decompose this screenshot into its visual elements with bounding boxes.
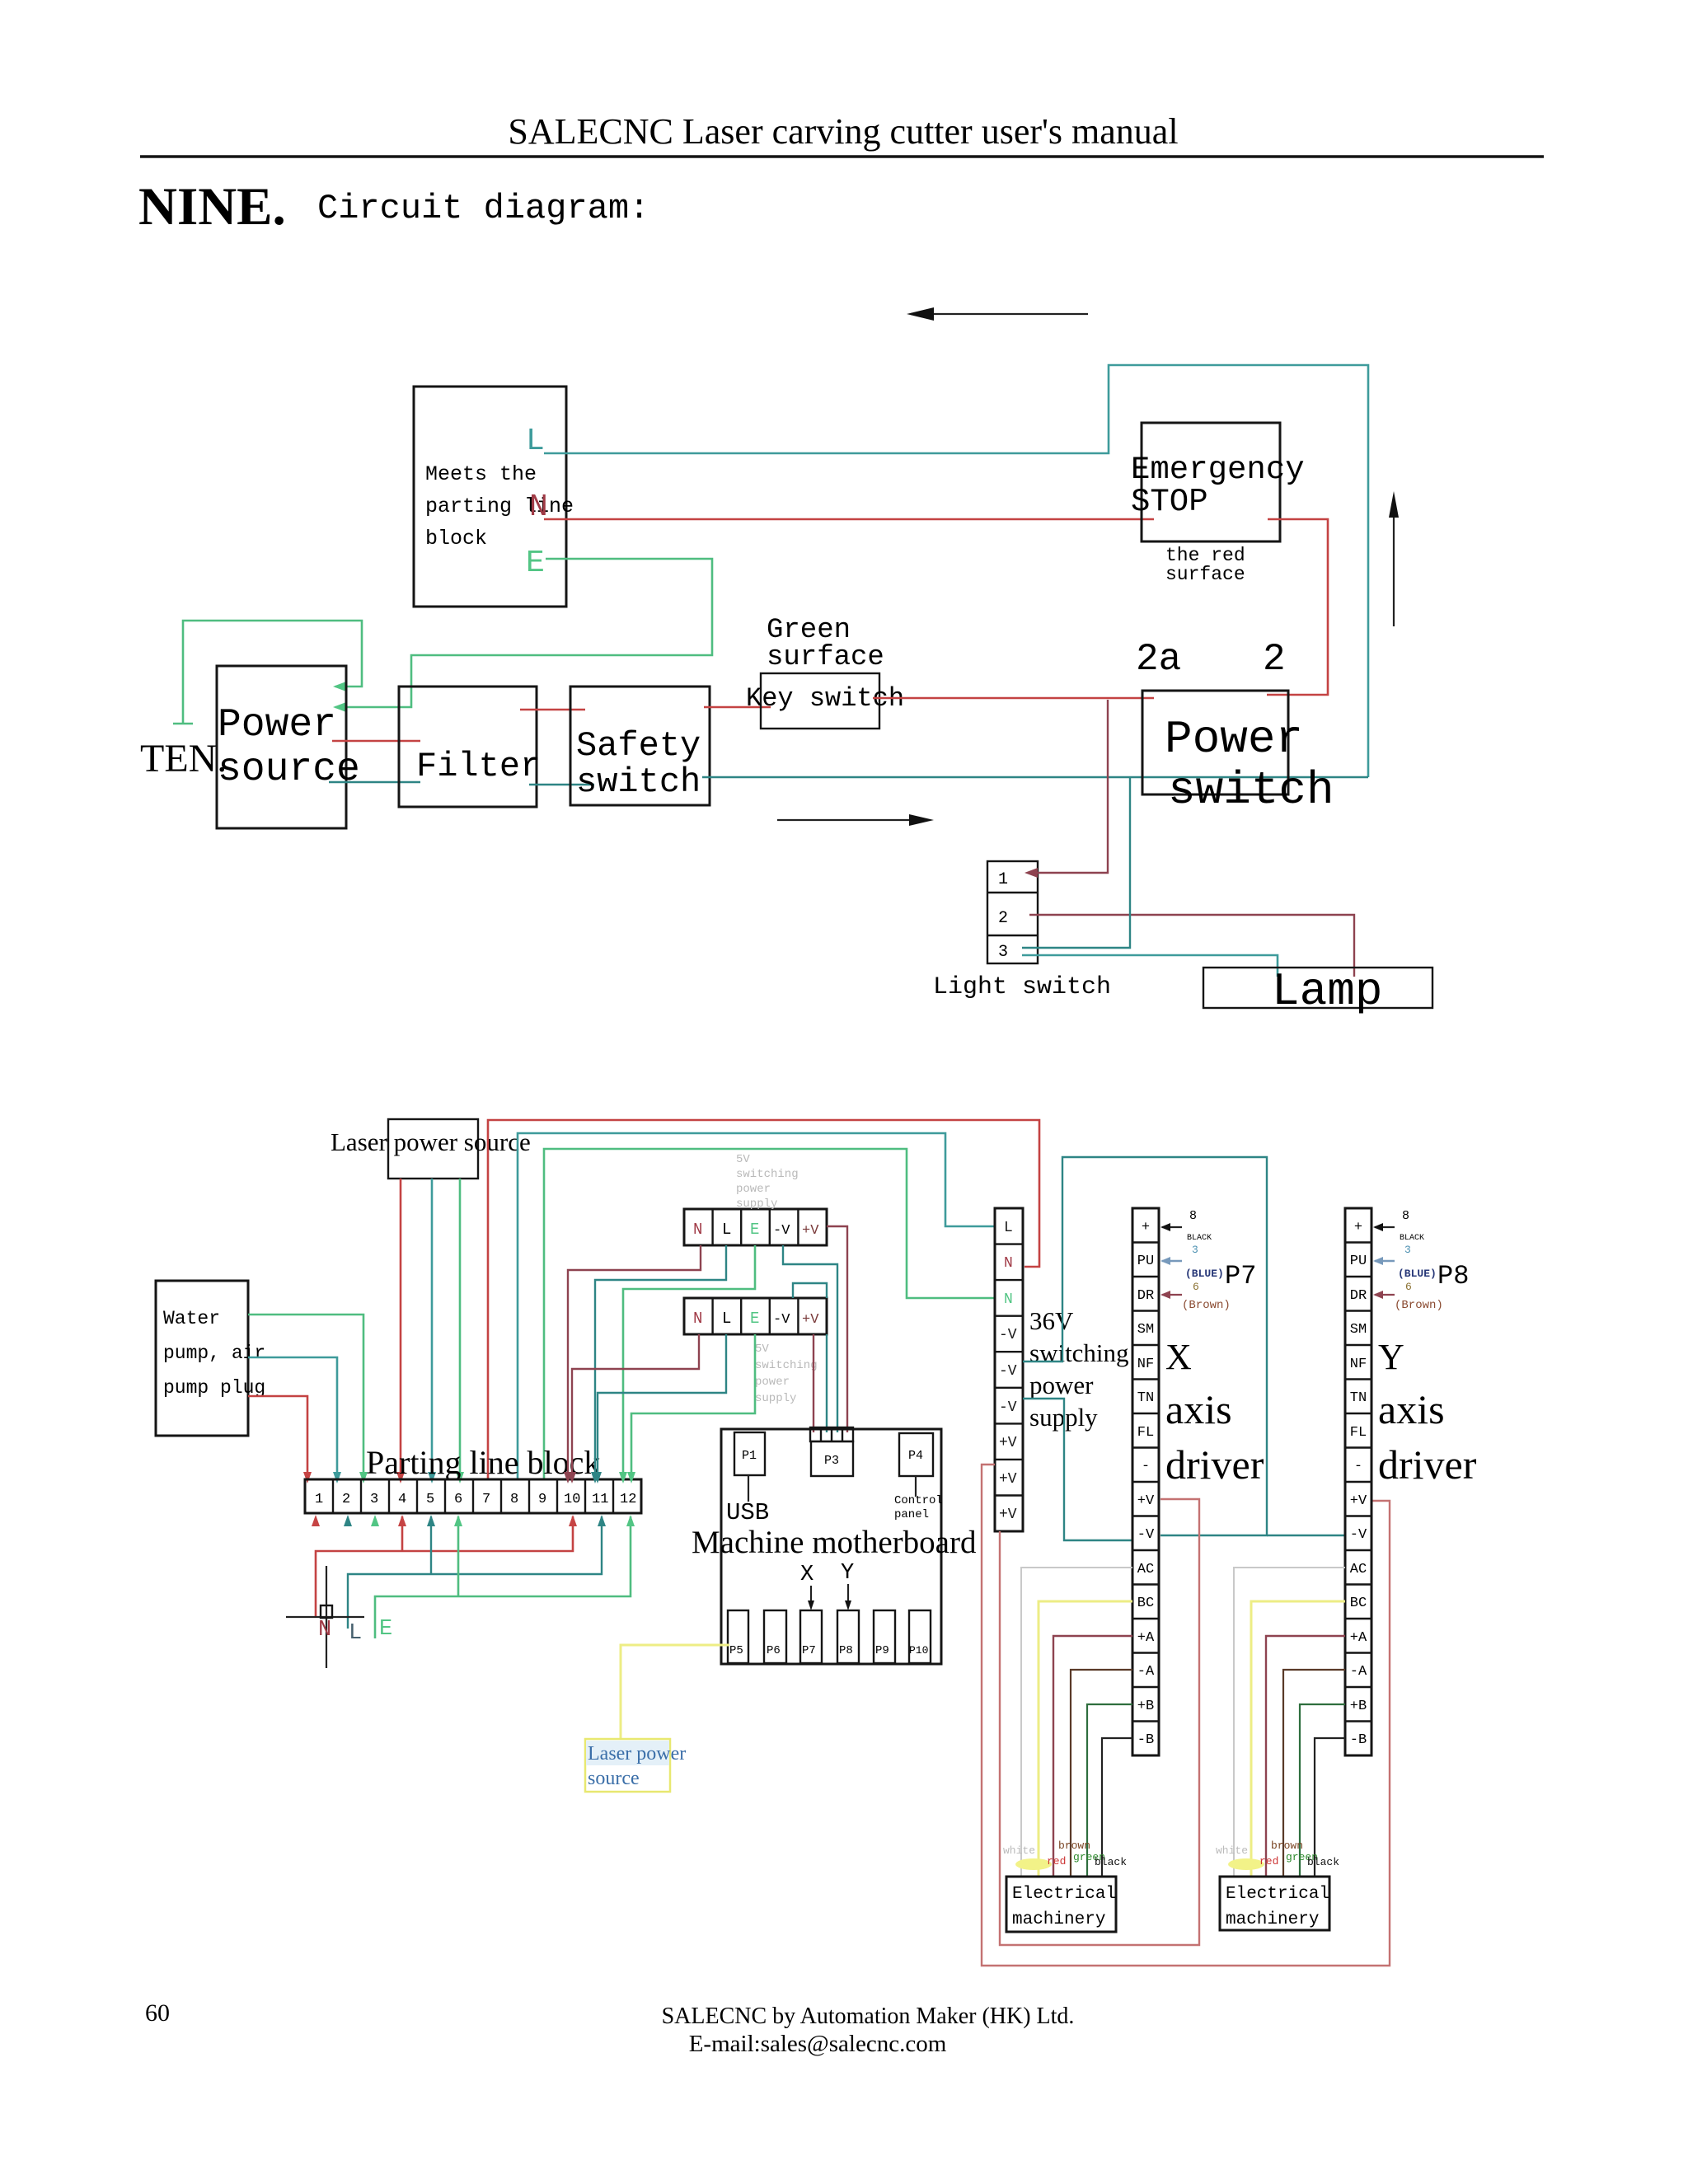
label: X motor wire colours [1003, 1840, 1127, 1870]
wire: maroon 5V strip2 +V to motherboard P3 [813, 1334, 814, 1432]
svg-text:P1: P1 [742, 1449, 757, 1463]
svg-text:switching: switching [755, 1359, 818, 1372]
wire: green 5V strip1 E to PLB terminal 12 [619, 1245, 755, 1483]
connector P3 pins [810, 1427, 853, 1441]
wire: teal 5V strip1 L to PLB terminal 11 [591, 1245, 726, 1483]
wire: red filter to safety switch [520, 709, 585, 711]
arrow (vertical, pointing up) [1389, 491, 1399, 626]
wire: Y driver +B to electrical machinery [1300, 1704, 1345, 1877]
svg-text:supply: supply [755, 1392, 796, 1405]
svg-text:block: block [425, 527, 487, 551]
connector P1 [734, 1432, 765, 1475]
label: Y axis driver [1378, 1337, 1477, 1488]
wire: green water pump to PLB terminal 3 [248, 1315, 368, 1483]
label: Laser power source (yellow box, blue text) [585, 1739, 686, 1792]
wire: Y driver +A to electrical machinery [1266, 1636, 1345, 1877]
svg-text:12: 12 [620, 1492, 636, 1507]
svg-text:FL: FL [1350, 1425, 1367, 1441]
svg-text:L: L [349, 1621, 362, 1646]
wire: teal laser power source to PLB terminal 5 [428, 1179, 436, 1483]
block: Light switch (3 terminals) [987, 861, 1038, 963]
wire: teal light switch terminal 3 to lamp [1022, 955, 1278, 977]
wire: teal power switch to light switch terminal 3 [1022, 778, 1130, 948]
block: Emergency STOP [1131, 423, 1305, 541]
svg-text:AC: AC [1137, 1562, 1154, 1577]
svg-text:6: 6 [1193, 1281, 1199, 1293]
label: wire colour notes at P8 driver top [1373, 1209, 1469, 1312]
svg-text:(Brown): (Brown) [1395, 1299, 1443, 1312]
svg-text:SALECNC Laser carving cutter u: SALECNC Laser carving cutter user's manu… [508, 111, 1178, 152]
block: Power source [217, 666, 360, 828]
svg-text:+V: +V [1137, 1493, 1155, 1509]
svg-text:parting line: parting line [425, 494, 574, 518]
svg-text:5: 5 [426, 1492, 434, 1507]
block: Electrical machinery (Y) [1220, 1877, 1329, 1930]
arrow (middle, pointing right) [777, 814, 934, 826]
svg-text:-: - [1354, 1459, 1362, 1474]
svg-text:BLACK: BLACK [1187, 1234, 1212, 1243]
wire: X driver +B to electrical machinery [1087, 1704, 1132, 1877]
wire: red 5V strip1 +V to motherboard P3 [827, 1226, 847, 1432]
svg-text:-B: -B [1350, 1732, 1367, 1748]
svg-text:7: 7 [482, 1492, 490, 1507]
block: Laser power source [331, 1119, 531, 1179]
wire: red PLB terminal 7 to 36V supply N [488, 1120, 1039, 1479]
svg-text:-: - [1142, 1459, 1150, 1474]
svg-text:USB: USB [726, 1499, 769, 1526]
svg-text:FL: FL [1137, 1425, 1154, 1441]
svg-text:E: E [750, 1310, 759, 1328]
wire: P4 stub to control panel [915, 1476, 917, 1497]
connector P6 [764, 1610, 786, 1663]
svg-text:supply: supply [736, 1197, 777, 1211]
wire: teal PLB terminal 8 to 36V supply L [518, 1133, 995, 1479]
svg-text:black: black [1095, 1856, 1127, 1868]
svg-text:TN: TN [1350, 1390, 1367, 1406]
svg-text:N: N [1004, 1291, 1013, 1308]
svg-text:DR: DR [1137, 1288, 1154, 1304]
svg-text:36V: 36V [1029, 1306, 1074, 1335]
wire: teal filter to safety switch [529, 784, 594, 785]
svg-text:P3: P3 [824, 1454, 839, 1468]
svg-text:X: X [1165, 1337, 1192, 1377]
svg-text:P7: P7 [802, 1644, 816, 1657]
svg-text:(BLUE): (BLUE) [1185, 1268, 1224, 1280]
svg-text:switch: switch [576, 762, 701, 802]
block: Water pump air pump plug [156, 1281, 265, 1436]
svg-text:Electrical: Electrical [1226, 1885, 1329, 1904]
wire: Y driver -A to electrical machinery [1283, 1670, 1345, 1877]
svg-text:NF: NF [1137, 1357, 1154, 1372]
svg-text:SM: SM [1137, 1322, 1154, 1338]
svg-text:6: 6 [454, 1492, 462, 1507]
svg-text:3: 3 [370, 1492, 378, 1507]
wire: teal 36V -V to X and Y driver -V (upper loop) [1023, 1157, 1267, 1535]
svg-text:-V: -V [1350, 1527, 1367, 1543]
svg-text:3: 3 [1404, 1244, 1411, 1256]
wire: Y driver BC to electrical machinery [1251, 1601, 1345, 1877]
svg-text:SM: SM [1350, 1322, 1367, 1338]
svg-text:(Brown): (Brown) [1182, 1299, 1231, 1312]
svg-text:8: 8 [510, 1492, 518, 1507]
block: parting line block 12-terminal strip [305, 1479, 641, 1513]
svg-text:BLACK: BLACK [1400, 1234, 1424, 1243]
svg-text:Power: Power [218, 703, 336, 748]
svg-text:Emergency: Emergency [1131, 452, 1305, 488]
wire: X driver AC to electrical machinery [1021, 1568, 1132, 1877]
svg-text:-A: -A [1137, 1664, 1155, 1680]
block: Safety switch [570, 687, 710, 805]
svg-text:-A: -A [1350, 1664, 1367, 1680]
svg-text:panel: panel [894, 1508, 929, 1521]
svg-text:Water: Water [163, 1308, 220, 1329]
svg-text:3: 3 [998, 943, 1008, 962]
svg-text:STOP: STOP [1131, 484, 1208, 520]
block: Lamp [1203, 965, 1432, 1018]
wire: teal safety switch to power switch and far right [702, 776, 1368, 778]
wire: maroon power switch to light switch terminal 1 [1025, 700, 1108, 878]
svg-text:switching: switching [1029, 1338, 1129, 1367]
svg-text:2: 2 [1263, 638, 1286, 681]
svg-text:+B: +B [1137, 1699, 1154, 1714]
connector P7 [800, 1610, 822, 1663]
svg-text:P8: P8 [839, 1644, 853, 1657]
svg-text:3: 3 [1192, 1244, 1198, 1256]
svg-text:BC: BC [1137, 1596, 1154, 1611]
label: Control panel [894, 1494, 943, 1521]
svg-text:source: source [588, 1768, 640, 1789]
svg-text:5V: 5V [755, 1343, 769, 1356]
wire: red water pump to PLB terminal 1 [248, 1396, 312, 1483]
svg-text:brown: brown [1058, 1840, 1090, 1852]
svg-text:Circuit diagram:: Circuit diagram: [317, 189, 649, 228]
svg-text:-V: -V [999, 1399, 1017, 1416]
block: 5V switching power supply strip 2 (N L E -V +V) [684, 1298, 827, 1334]
svg-text:Electrical: Electrical [1012, 1885, 1116, 1904]
wire: N line (red) from parting block to Emergency STOP [544, 518, 1154, 521]
svg-text:white: white [1003, 1844, 1035, 1857]
wire: red safety switch to key switch [704, 706, 771, 709]
wire: red laser power source to PLB terminal 4 [396, 1179, 405, 1483]
svg-text:-V: -V [999, 1363, 1017, 1380]
svg-text:+V: +V [802, 1223, 819, 1239]
wire: red 5V strip2 N to PLB terminal 10 [568, 1334, 699, 1483]
svg-text:10: 10 [564, 1492, 580, 1507]
svg-text:(BLUE): (BLUE) [1398, 1268, 1437, 1280]
svg-text:Lamp: Lamp [1272, 965, 1382, 1018]
svg-text:-V: -V [773, 1223, 790, 1239]
wire: yellow P5 to laser power source label [621, 1645, 729, 1739]
svg-text:N: N [1004, 1255, 1013, 1272]
connector P8 [837, 1610, 859, 1663]
svg-text:white: white [1216, 1844, 1248, 1857]
block: Machine motherboard [721, 1429, 941, 1664]
svg-text:2: 2 [998, 909, 1008, 928]
svg-text:Power: Power [1165, 713, 1303, 766]
svg-text:red: red [1047, 1855, 1066, 1868]
svg-text:6: 6 [1405, 1281, 1412, 1293]
svg-text:-V: -V [1137, 1527, 1155, 1543]
svg-text:E: E [526, 546, 545, 581]
svg-text:source: source [218, 748, 360, 792]
block: X axis driver terminal strip [1132, 1208, 1159, 1755]
svg-text:+: + [1354, 1220, 1362, 1235]
svg-text:power: power [736, 1183, 771, 1196]
svg-text:1: 1 [315, 1492, 323, 1507]
svg-text:N: N [693, 1310, 702, 1328]
svg-text:AC: AC [1350, 1562, 1367, 1577]
svg-text:N: N [318, 1618, 331, 1643]
svg-text:switching: switching [736, 1168, 799, 1181]
connector P4 [899, 1433, 933, 1476]
svg-text:E-mail:sales@salecnc.com: E-mail:sales@salecnc.com [689, 2031, 947, 2057]
wire: Y driver AC to electrical machinery [1234, 1568, 1345, 1877]
label: 5V switching power supply (upper, faint) [736, 1153, 799, 1211]
wire: teal 5V strip2 L to PLB terminal 11 [593, 1334, 726, 1483]
svg-text:Machine motherboard: Machine motherboard [692, 1525, 977, 1560]
block: Electrical machinery (X) [1006, 1877, 1116, 1932]
wire: X driver -A to electrical machinery [1071, 1670, 1132, 1877]
svg-text:power: power [1029, 1371, 1094, 1399]
svg-text:DR: DR [1350, 1288, 1367, 1304]
block: Meets the parting line block [414, 387, 574, 607]
connector P10 [909, 1610, 931, 1663]
block: Power switch [1142, 691, 1334, 817]
label: 5V switching power supply (lower, faint) [755, 1343, 818, 1405]
svg-text:surface: surface [767, 642, 884, 673]
svg-text:black: black [1307, 1856, 1339, 1868]
label: Green surface [767, 615, 884, 673]
svg-text:power: power [755, 1376, 790, 1389]
wire: teal bridge over 5V strip 2 [793, 1283, 827, 1298]
svg-text:Meets the: Meets the [425, 462, 537, 486]
block: 36V switching power supply terminal strip [995, 1208, 1023, 1531]
svg-text:pump, air: pump, air [163, 1343, 265, 1364]
svg-text:+V: +V [999, 1435, 1017, 1451]
connector P3 [811, 1441, 853, 1476]
svg-text:5V: 5V [736, 1153, 750, 1166]
svg-text:P5: P5 [729, 1644, 743, 1657]
wire: X driver +A to electrical machinery [1053, 1636, 1132, 1877]
svg-text:E: E [379, 1617, 392, 1642]
wire: teal power source to filter [329, 781, 420, 783]
wire: green 5V strip2 E to PLB terminal 12 [627, 1334, 755, 1483]
wire: red light switch terminal 2 to lamp [1029, 915, 1354, 977]
svg-text:L: L [1004, 1220, 1013, 1236]
svg-text:X: X [800, 1563, 814, 1587]
label: Y motor wire colours [1216, 1840, 1339, 1870]
svg-text:L: L [722, 1310, 731, 1328]
svg-text:P9: P9 [875, 1644, 889, 1657]
label: the red surface [1165, 545, 1245, 585]
svg-text:PU: PU [1350, 1254, 1367, 1269]
svg-text:2: 2 [342, 1492, 350, 1507]
wire: red loop X driver +V to 36V supply +V (inner) [1000, 1499, 1199, 1945]
svg-text:driver: driver [1378, 1441, 1477, 1488]
svg-text:surface: surface [1165, 564, 1245, 585]
svg-text:P8: P8 [1437, 1261, 1469, 1291]
wire: red power source to filter [332, 740, 420, 743]
wire: Y stub to P8 [845, 1584, 851, 1610]
svg-text:L: L [722, 1221, 731, 1239]
wire: X stub to P7 [808, 1586, 814, 1610]
svg-text:8: 8 [1189, 1209, 1197, 1223]
block: 5V switching power supply strip 1 (N L E -V +V) [684, 1209, 827, 1245]
wire: red key switch to power switch [873, 697, 1154, 700]
svg-text:NF: NF [1350, 1357, 1367, 1372]
svg-text:9: 9 [538, 1492, 546, 1507]
wire: L line (teal) from parting block to power switch right side [544, 365, 1368, 777]
svg-text:Control: Control [894, 1494, 943, 1507]
wire: X driver BC to electrical machinery [1039, 1601, 1132, 1877]
wire: teal 5V strip1 -V to motherboard P3 [783, 1245, 837, 1432]
svg-text:Laser power: Laser power [588, 1743, 686, 1765]
node: N L E mains marker [286, 1566, 392, 1668]
svg-text:+V: +V [1350, 1493, 1367, 1509]
wire: P1 stub to USB [748, 1475, 749, 1502]
svg-text:+A: +A [1350, 1630, 1367, 1646]
wire: green PLB terminal 9 to 36V supply N [544, 1149, 995, 1479]
svg-text:1: 1 [998, 870, 1008, 889]
svg-text:+A: +A [1137, 1630, 1155, 1646]
svg-text:brown: brown [1271, 1840, 1303, 1852]
wire: teal junction arm to Y driver -V [1267, 1535, 1345, 1536]
svg-text:P6: P6 [767, 1644, 781, 1657]
svg-text:60: 60 [145, 1999, 170, 2027]
svg-text:+B: +B [1350, 1699, 1367, 1714]
wire: teal 5V strip2 +V corner to motherboard P3 [826, 1334, 828, 1432]
label: X axis driver [1165, 1337, 1264, 1488]
svg-text:machinery: machinery [1226, 1910, 1319, 1929]
svg-text:N: N [693, 1221, 702, 1239]
svg-text:NINE.: NINE. [138, 177, 286, 237]
header rule [140, 155, 1544, 158]
wire: red 5V strip1 N to PLB terminal 10 [564, 1245, 701, 1483]
svg-text:Laser power source: Laser power source [331, 1127, 531, 1156]
wire: X driver -B to electrical machinery [1102, 1738, 1132, 1877]
label: wire colour notes at P7 driver top [1160, 1209, 1256, 1312]
wire: teal water pump to PLB terminal 2 [248, 1357, 341, 1483]
wire: Y driver -B to electrical machinery [1315, 1738, 1345, 1877]
svg-text:11: 11 [592, 1492, 608, 1507]
svg-text:TEN.: TEN. [140, 737, 227, 780]
svg-text:8: 8 [1402, 1209, 1409, 1223]
svg-text:P7: P7 [1225, 1261, 1256, 1291]
wire: green ground loop at power source [173, 621, 362, 724]
svg-text:SALECNC by Automation Maker (H: SALECNC by Automation Maker (HK) Ltd. [662, 2004, 1075, 2029]
svg-text:-V: -V [773, 1312, 790, 1328]
svg-text:Safety: Safety [576, 726, 701, 766]
connector P5 [728, 1610, 748, 1663]
svg-text:TN: TN [1137, 1390, 1154, 1406]
svg-text:4: 4 [398, 1492, 406, 1507]
svg-text:switch: switch [1168, 764, 1334, 817]
block: Filter [399, 687, 541, 807]
svg-text:P4: P4 [908, 1449, 923, 1463]
svg-text:-V: -V [999, 1327, 1017, 1343]
block: Y axis driver terminal strip [1345, 1208, 1371, 1755]
wire: green bus PLB terminals 3-6-12 [371, 1515, 635, 1638]
svg-text:PU: PU [1137, 1254, 1154, 1269]
svg-text:+V: +V [999, 1507, 1017, 1523]
svg-text:-B: -B [1137, 1732, 1154, 1748]
svg-text:+V: +V [802, 1312, 819, 1328]
svg-text:Y: Y [841, 1561, 854, 1586]
svg-text:P10: P10 [909, 1644, 928, 1657]
svg-text:Y: Y [1378, 1337, 1404, 1377]
svg-text:L: L [526, 424, 545, 459]
wire: teal bus PLB terminals 2-5-11 [344, 1515, 606, 1629]
svg-text:Light switch: Light switch [933, 973, 1111, 1001]
label: 36V switching power supply [1029, 1306, 1129, 1432]
svg-text:axis: axis [1165, 1386, 1232, 1432]
svg-text:driver: driver [1165, 1441, 1264, 1488]
connector P9 [874, 1610, 895, 1663]
svg-text:axis: axis [1378, 1386, 1445, 1432]
svg-text:red: red [1259, 1855, 1278, 1868]
svg-text:BC: BC [1350, 1596, 1367, 1611]
block: Key switch [746, 673, 904, 729]
wire: red bus PLB terminals 1-4-10 [312, 1515, 577, 1618]
wire: red emergency stop to power switch terminal 2 [1267, 519, 1328, 695]
svg-text:machinery: machinery [1012, 1910, 1105, 1929]
wire: E line (green) from parting block to power source [335, 559, 712, 707]
svg-text:Filter: Filter [416, 747, 541, 786]
wire: teal 36V -V to X driver -V (lower) [1023, 1399, 1132, 1540]
svg-text:+V: +V [999, 1471, 1017, 1488]
wire: red loop Y driver +V to 36V supply +V (outer) [982, 1465, 1390, 1966]
svg-text:+: + [1142, 1220, 1150, 1235]
svg-text:E: E [750, 1221, 759, 1239]
wire: green laser power source to PLB terminal 6 [456, 1179, 464, 1483]
svg-text:2a: 2a [1136, 638, 1181, 681]
arrow (top, pointing left) [907, 307, 1088, 321]
